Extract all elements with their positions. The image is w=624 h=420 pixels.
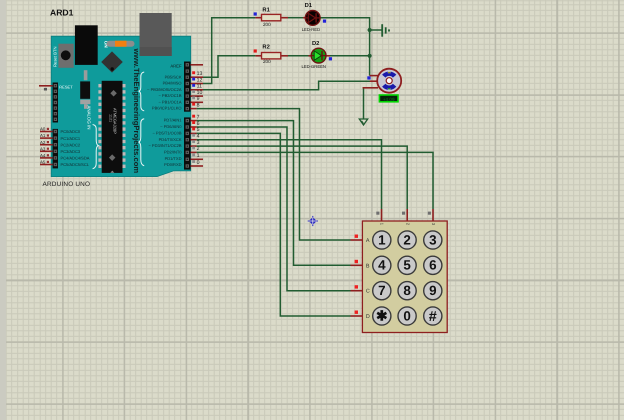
right header lower [184, 117, 191, 169]
wire D2 to bus [326, 55, 369, 57]
svg-text:4: 4 [197, 134, 200, 140]
svg-text:4: 4 [378, 258, 386, 273]
svg-text:~ PD6/AIN0: ~ PD6/AIN0 [160, 124, 182, 129]
svg-text:3: 3 [429, 232, 436, 247]
svg-text:PB5/SCK: PB5/SCK [165, 74, 182, 79]
pin RESET stub [39, 86, 53, 91]
button 3 [424, 231, 442, 249]
svg-text:9: 9 [429, 283, 436, 298]
svg-text:A5: A5 [40, 160, 46, 165]
pin 3 [191, 140, 200, 146]
silkscreen brace PB group [139, 72, 145, 111]
svg-text:2: 2 [197, 146, 200, 152]
pin 11 [191, 84, 204, 90]
svg-text:PD4/T0/XCK: PD4/T0/XCK [159, 137, 182, 142]
pin 4 [191, 134, 200, 140]
wire pin8 to keypad row A [197, 109, 351, 240]
svg-text:7: 7 [378, 283, 385, 298]
pin 6 [191, 121, 200, 127]
pin A0 [40, 127, 53, 132]
svg-text:1: 1 [197, 153, 200, 159]
resistor R1 [254, 7, 303, 26]
USB connector [140, 13, 172, 56]
pin 1 [191, 153, 204, 159]
svg-text:ARDUINO UNO: ARDUINO UNO [43, 181, 91, 188]
svg-text:PD1/TXD: PD1/TXD [165, 156, 182, 161]
silkscreen brace analog group [93, 125, 99, 169]
svg-text:ANALOG IN: ANALOG IN [87, 106, 92, 130]
svg-text:D1: D1 [305, 3, 313, 9]
svg-text:A0: A0 [40, 127, 46, 132]
svg-text:C: C [366, 289, 370, 295]
svg-text:0: 0 [197, 160, 200, 166]
svg-text:12: 12 [197, 77, 203, 83]
svg-text:~ PB3/MOSI/OC2A: ~ PB3/MOSI/OC2A [147, 87, 182, 92]
svg-text:PC5/ADC5/SCL: PC5/ADC5/SCL [61, 162, 90, 167]
svg-text:1121: 1121 [109, 114, 113, 122]
LED D1 LED-RED [302, 3, 326, 32]
svg-text:13: 13 [197, 71, 203, 77]
button 1 [373, 231, 391, 249]
board body [51, 36, 191, 176]
svg-text:10: 10 [197, 90, 203, 96]
left header upper [53, 83, 58, 123]
keypad body [362, 221, 447, 333]
crystal [84, 70, 88, 80]
svg-text:PD0/RXD: PD0/RXD [164, 162, 181, 167]
svg-text:A: A [366, 238, 370, 244]
button 7 [373, 282, 391, 300]
svg-text:A2: A2 [40, 140, 46, 145]
pin 2 [191, 146, 200, 152]
svg-text:LED-RED: LED-RED [302, 27, 320, 32]
svg-text:LED-GREEN: LED-GREEN [302, 64, 326, 69]
svg-text:9: 9 [197, 96, 200, 102]
svg-text:+4.09: +4.09 [383, 97, 395, 102]
motor rpm display [379, 95, 398, 102]
svg-text:200: 200 [263, 59, 271, 64]
button 8 [398, 282, 416, 300]
svg-text:PC4/ADC4/SDA: PC4/ADC4/SDA [61, 156, 90, 161]
pin AREF stub [191, 64, 204, 66]
reset button [58, 44, 73, 68]
svg-text:PC2/ADC2: PC2/ADC2 [61, 142, 81, 147]
button 5 [398, 256, 416, 274]
wire pin4 to keypad col 1 [197, 140, 382, 209]
pin A2 [40, 140, 53, 145]
svg-text:AREF: AREF [170, 64, 182, 69]
svg-text:5: 5 [197, 127, 200, 133]
pin 10 [191, 90, 204, 96]
wire pin5 to keypad row D [197, 133, 351, 316]
svg-text:PC0/ADC0: PC0/ADC0 [61, 129, 81, 134]
svg-text:D: D [366, 314, 370, 320]
button 9 [424, 282, 442, 300]
left pin function labels [61, 129, 90, 167]
wire bus to ground terminal [370, 29, 382, 31]
LED D2 LED-GREEN [302, 40, 333, 69]
Arduino ARD1 [43, 8, 191, 189]
svg-text:A3: A3 [40, 146, 46, 151]
motor U1 [363, 69, 402, 93]
wire pin13 to R2 [203, 56, 255, 77]
ATmega328 DIP [102, 81, 123, 173]
pin A5 [40, 160, 53, 165]
svg-text:#: # [429, 309, 437, 325]
wire motor to ground [364, 88, 371, 119]
pin 13 [191, 71, 204, 77]
svg-text:B: B [366, 263, 370, 269]
ground (top right, horizontal) [382, 24, 389, 37]
pin 8 [191, 102, 200, 108]
keypad KP1 [351, 209, 448, 333]
svg-text:~ PD3/INT1/OC2B: ~ PD3/INT1/OC2B [148, 143, 181, 148]
keypad col pin stubs [381, 209, 383, 221]
right pin function labels [147, 74, 182, 167]
svg-text:0: 0 [403, 308, 410, 323]
keypad col labels [380, 223, 437, 226]
ground (below motor, triangle) [359, 119, 367, 125]
svg-text:R1: R1 [262, 7, 270, 13]
junction at D2 [368, 54, 372, 58]
keypad row labels [366, 238, 370, 320]
svg-text:8: 8 [403, 283, 411, 298]
svg-text:ARD1: ARD1 [50, 8, 74, 18]
svg-text:3: 3 [197, 140, 200, 146]
wire pin7 to keypad row B [197, 121, 351, 266]
svg-text:RESET: RESET [59, 84, 73, 89]
wire pin12 to R1 [203, 18, 255, 84]
pin 12 [191, 77, 204, 83]
keypad row pin stubs [351, 239, 363, 241]
button 4 [373, 256, 391, 274]
DIP pins right [123, 84, 126, 168]
pin A1 [40, 133, 53, 138]
origin marker [308, 216, 318, 226]
svg-text:PD2/INT0: PD2/INT0 [164, 150, 182, 155]
button star [373, 307, 391, 325]
svg-text:D2: D2 [312, 40, 319, 47]
button 2 [398, 231, 416, 249]
resistor R2 [254, 43, 309, 64]
svg-text:6: 6 [429, 258, 436, 273]
wire pin3 to keypad col 2 [197, 146, 408, 209]
junction at ground tap [368, 28, 372, 32]
svg-text:PB0/ICP1/CLKO: PB0/ICP1/CLKO [152, 106, 182, 111]
pin A3 [40, 146, 53, 151]
svg-text:~ PD5/T1/OC0B: ~ PD5/T1/OC0B [152, 131, 181, 136]
pin 0 [191, 160, 204, 166]
svg-text:5: 5 [403, 258, 411, 273]
svg-text:200: 200 [263, 22, 271, 27]
button 6 [424, 256, 442, 274]
svg-text:www.TheEngineeringProjects.com: www.TheEngineeringProjects.com [132, 48, 141, 174]
svg-text:2: 2 [403, 232, 410, 247]
svg-text:PC1/ADC1: PC1/ADC1 [61, 136, 81, 141]
pin 5 [191, 127, 200, 133]
pin 9 [191, 96, 204, 102]
svg-text:~ PB2/OC1B: ~ PB2/OC1B [158, 93, 181, 98]
svg-text:Reset BTN: Reset BTN [53, 47, 58, 67]
ICSP diamond [101, 51, 123, 72]
pin 7 [191, 114, 200, 120]
svg-text:PC3/ADC3: PC3/ADC3 [61, 149, 81, 154]
wire pin11 to motor [203, 81, 370, 90]
DIP pins left [98, 84, 101, 168]
svg-text:7: 7 [197, 114, 200, 120]
svg-text:PD7/AIN1: PD7/AIN1 [164, 118, 183, 123]
button 0 [398, 307, 416, 325]
svg-text:A4: A4 [40, 153, 46, 158]
svg-text:PB4/MISO: PB4/MISO [163, 81, 182, 86]
svg-text:R2: R2 [262, 43, 269, 50]
svg-text:1: 1 [378, 232, 386, 247]
svg-text:8: 8 [197, 102, 200, 108]
wire pin6 to keypad row C [197, 127, 351, 291]
left header lower [53, 129, 58, 169]
power jack [75, 25, 98, 65]
right header upper [184, 62, 191, 112]
svg-text:~ PB1/OC1A: ~ PB1/OC1A [158, 99, 181, 104]
svg-text:✱: ✱ [376, 308, 388, 323]
pin A4 [40, 153, 53, 158]
svg-text:11: 11 [197, 84, 202, 90]
wire D1 to ground bus [320, 18, 369, 76]
svg-text:6: 6 [197, 121, 200, 127]
wire pin2 to keypad col 3 [197, 152, 433, 209]
button hash [424, 307, 442, 325]
svg-text:A1: A1 [40, 133, 46, 138]
silkscreen brace PD group [139, 119, 145, 166]
